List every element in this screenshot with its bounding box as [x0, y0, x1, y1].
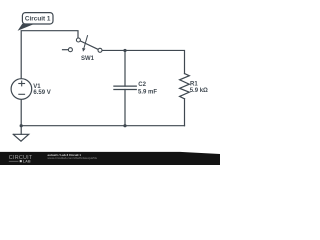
svg-text:C2: C2 [138, 82, 146, 88]
svg-text:R1: R1 [190, 82, 198, 88]
svg-text:www.circuitlab.com/c6w8c4awcju: www.circuitlab.com/c6w8c4awcjuk5ls [48, 156, 98, 160]
svg-text:5.9 mF: 5.9 mF [138, 89, 157, 95]
svg-text:V1: V1 [33, 84, 41, 90]
svg-text:6.59 V: 6.59 V [33, 90, 50, 96]
svg-text:LAB: LAB [23, 160, 31, 164]
svg-text:Circuit 1: Circuit 1 [25, 16, 51, 23]
svg-text:SW1: SW1 [81, 56, 95, 62]
svg-text:5.9 kΩ: 5.9 kΩ [190, 88, 208, 94]
